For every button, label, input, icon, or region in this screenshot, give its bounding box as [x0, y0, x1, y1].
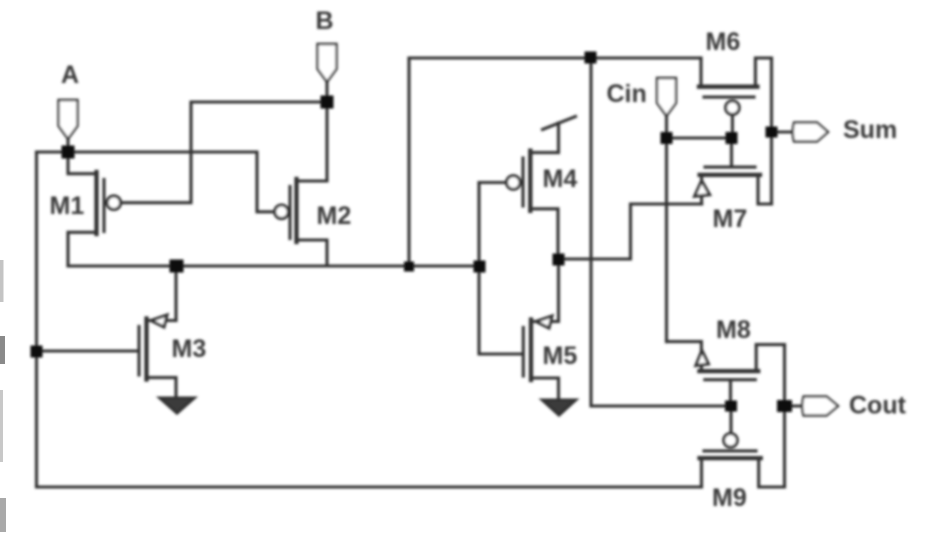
node M6/M7 gate junction — [726, 132, 738, 144]
node M8/M9 gate junction — [725, 401, 737, 412]
wire: left vertical A-to-bottom rail — [35, 152, 38, 487]
wire: long vertical from top rail to M8/M9 gates — [591, 58, 731, 406]
wire: M4 gate bubble stub — [479, 181, 507, 184]
node mid-rail/x408 junction — [404, 262, 414, 272]
transistor M5 (NMOS, gate left) — [523, 259, 558, 399]
wire: Cout tap — [785, 404, 802, 407]
wire: A rail to M2 gate — [37, 152, 277, 212]
transistor M8 (NMOS, horizontal, gate below) — [667, 342, 785, 380]
svg-text:M6: M6 — [706, 28, 741, 56]
node B junction — [321, 96, 334, 109]
wire: M6 gate bubble drop — [731, 114, 734, 138]
svg-text:M2: M2 — [317, 202, 352, 230]
wire: A pin stem — [66, 138, 69, 152]
transistor M7 (NMOS, horizontal, gate above) — [695, 167, 772, 204]
svg-text:M5: M5 — [543, 342, 578, 370]
connector Sum — [793, 123, 828, 142]
svg-text:M9: M9 — [712, 484, 747, 512]
transistor M4 (PMOS, gate left) — [507, 123, 559, 259]
transistor M3 (NMOS, gate left) — [139, 315, 176, 398]
svg-text:Sum: Sum — [843, 116, 897, 144]
wire: Cin node to M6/M7 gates — [667, 136, 732, 139]
node Cout junction — [777, 400, 792, 412]
node Sum junction — [766, 127, 778, 138]
transistor M6 (PMOS, horizontal, gate below) — [699, 58, 772, 114]
pin Cin — [657, 78, 676, 116]
svg-text:M4: M4 — [543, 165, 578, 193]
svg-text:M7: M7 — [713, 205, 748, 233]
wire: Sum tap — [772, 130, 793, 133]
svg-text:M1: M1 — [50, 192, 85, 220]
wire: Cin pin stem — [665, 114, 668, 138]
wire: M4/M5 gate vertical — [479, 183, 523, 355]
svg-text:Cin: Cin — [607, 80, 647, 108]
wire: M7 gate drop — [730, 138, 733, 167]
wire: M8 gate drop — [729, 380, 732, 406]
svg-text:M8: M8 — [716, 316, 751, 344]
transistor M1 (PMOS, gate right) — [68, 152, 121, 266]
node Cin junction — [661, 132, 673, 144]
pin B — [318, 44, 337, 82]
wire: M1 gate to B node — [120, 102, 328, 203]
node A junction — [62, 146, 75, 159]
wire: M3 gate stub — [37, 349, 140, 352]
power slash (M4 drain rail) — [543, 117, 576, 130]
wire: Cin vertical to M8 source — [665, 138, 668, 342]
pin A — [59, 100, 78, 139]
node top-rail junction — [585, 52, 597, 64]
svg-text:Cout: Cout — [849, 392, 907, 420]
wire: Cout vertical (M8/M9 drains) — [783, 345, 786, 487]
node mid-rail/M4M5-gate junction — [474, 261, 486, 273]
wire: vertical top rail to mid rail — [407, 58, 410, 266]
node M3 gate junction — [31, 346, 43, 358]
ground (M3 source) — [160, 398, 194, 413]
connector Cout — [802, 397, 838, 416]
wire: bottom rail to M9 source — [37, 485, 702, 488]
wire: M3 drain up to mid rail — [174, 266, 177, 321]
wire: top rail — [409, 56, 701, 59]
svg-text:A: A — [61, 61, 79, 89]
transistor M2 (PMOS, gate left) — [275, 179, 327, 266]
wire: mid rail — [68, 264, 479, 267]
svg-text:B: B — [316, 7, 334, 35]
svg-text:M3: M3 — [172, 335, 207, 363]
wire: M9 gate bubble riser — [729, 406, 732, 435]
wire: B node down to M2 source — [325, 102, 328, 181]
wire: X node to M7 source — [559, 204, 702, 259]
transistor M9 (PMOS, horizontal, gate above) — [700, 434, 785, 488]
ground (M5 source) — [543, 400, 576, 415]
wire: Sum vertical (M6/M7 drains) — [770, 58, 773, 204]
wire: B pin stem — [325, 80, 328, 102]
left edge artifacts — [0, 260, 6, 532]
node mid-rail/M3 junction — [170, 260, 184, 273]
node X (M4/M5 drains) junction — [553, 254, 565, 266]
